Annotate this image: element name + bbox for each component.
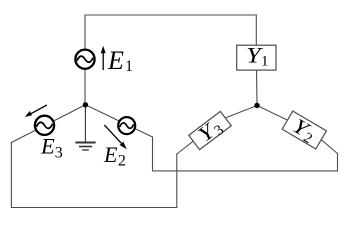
arrow E3 <box>25 105 47 117</box>
svg-text:E: E <box>103 142 118 167</box>
svg-text:3: 3 <box>55 144 63 161</box>
ground <box>75 105 95 150</box>
svg-text:E: E <box>40 134 55 159</box>
wire E1 branch vertical <box>84 15 86 105</box>
svg-text:2: 2 <box>118 153 126 170</box>
svg-text:E: E <box>107 46 124 75</box>
arrow E1 <box>101 46 106 70</box>
wire Y1 bottom vertical <box>256 70 259 105</box>
node load star <box>254 103 259 108</box>
wire top horizontal <box>85 14 256 16</box>
source E1 <box>75 50 94 69</box>
source E3 <box>35 116 54 135</box>
wire diagonal to Y3 left end <box>177 141 194 155</box>
wire Y1 top vertical <box>255 15 257 45</box>
wire E2 vertical <box>152 137 154 171</box>
wire E3 branch diagonal <box>11 105 85 143</box>
svg-text:1: 1 <box>261 54 269 70</box>
admittance Y3 <box>187 109 234 153</box>
wire bottom horizontal <box>11 207 176 209</box>
admittance Y1 <box>237 44 276 70</box>
svg-text:1: 1 <box>125 58 133 75</box>
wire right vertical <box>337 154 339 171</box>
node source star <box>83 102 88 107</box>
wire lower horizontal E2-Y2 <box>153 170 338 172</box>
wire E2 branch diagonal <box>85 105 152 137</box>
arrow E2 <box>104 125 126 149</box>
wire node to Y2 <box>257 106 288 121</box>
wire node to Y3 <box>226 106 257 118</box>
wire mid vertical to Y3 <box>176 154 178 208</box>
wire Y2 right end diagonal <box>321 139 338 153</box>
wire left vertical <box>10 143 12 208</box>
source E2 <box>118 117 135 134</box>
admittance Y2 <box>281 110 327 152</box>
